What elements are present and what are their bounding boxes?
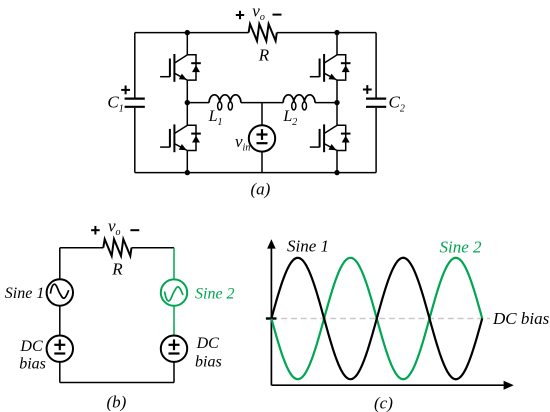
svg-text:C2: C2	[389, 93, 405, 115]
wire: (b) right lower	[173, 362, 175, 383]
label: minus of vo (b)	[130, 229, 139, 231]
DC bias dashed line (c)	[271, 318, 490, 320]
inductor L1	[209, 95, 241, 110]
source Sine 1	[47, 279, 73, 305]
svg-text:Sine 2: Sine 2	[440, 238, 483, 257]
wire: (b) left middle	[59, 306, 61, 336]
wire: (b) top rail right	[132, 247, 175, 249]
label: + of C1	[121, 86, 130, 95]
wire: vin top	[261, 103, 263, 126]
axis tick at DC bias level	[266, 317, 277, 319]
svg-text:DC: DC	[19, 338, 43, 355]
axis: x-axis arrowhead	[504, 381, 514, 390]
svg-text:(b): (b)	[107, 393, 127, 412]
svg-text:Sine 1: Sine 1	[5, 285, 45, 302]
wire: (a) left rail upper	[134, 33, 136, 98]
transistor Q1 (top-left IGBT with diode)	[160, 54, 201, 82]
svg-text:L1: L1	[208, 108, 223, 128]
wire: mid horizontal left	[187, 102, 209, 104]
wire: (a) left rail lower	[134, 108, 136, 173]
wire: (a) bottom rail	[135, 172, 376, 174]
wire: vin bottom	[261, 152, 263, 173]
resistor R (b)	[103, 239, 131, 256]
svg-text:vin: vin	[235, 132, 250, 154]
transistor Q2 (bottom-left IGBT with diode)	[160, 124, 201, 152]
svg-text:Sine 1: Sine 1	[287, 237, 329, 256]
axis: x-axis (c)	[271, 384, 504, 386]
transistor Q3 (top-right IGBT with diode)	[310, 54, 351, 82]
inductor L2	[283, 95, 315, 110]
curve: Sine 1 (black, c)	[271, 258, 482, 379]
wire: (a) right rail lower	[375, 108, 377, 173]
node dot bottom-left	[185, 170, 190, 175]
wire: (b) bottom rail	[60, 382, 174, 384]
node dot top-right	[334, 30, 339, 35]
wire: left leg bottom	[186, 151, 188, 173]
wire: (a) top rail right segment	[277, 32, 376, 34]
wire: right leg bottom	[336, 151, 338, 173]
axis: y-axis (c)	[270, 248, 272, 386]
node dot mid-left	[185, 100, 190, 105]
svg-text:(a): (a)	[251, 179, 271, 198]
wire: (b) left lower	[59, 362, 61, 383]
wire: (b) top rail left	[60, 247, 104, 249]
capacitor C1	[125, 99, 145, 107]
svg-text:DC: DC	[196, 335, 220, 352]
resistor R (a)	[249, 24, 277, 41]
wire: left leg middle	[186, 80, 188, 125]
label: + of vo (a)	[236, 11, 244, 19]
svg-text:bias: bias	[19, 355, 46, 372]
node dot bottom-right	[334, 170, 339, 175]
wire: (b) right upper (green)	[173, 248, 175, 280]
svg-text:R: R	[258, 45, 270, 64]
wire: right leg top	[336, 33, 338, 55]
wire: (b) left upper	[59, 248, 61, 280]
transistor Q4 (bottom-right IGBT with diode)	[310, 124, 351, 152]
node dot top-left	[185, 30, 190, 35]
wire: (b) right middle (green)	[173, 306, 175, 336]
label: + of vo (b)	[91, 226, 100, 235]
wire: mid horizontal right	[315, 102, 337, 104]
label: + of C2	[363, 85, 372, 94]
svg-text:(c): (c)	[374, 393, 393, 412]
svg-text:vo: vo	[108, 217, 121, 239]
label: minus of vo (a)	[273, 14, 282, 16]
axis: y-axis arrowhead	[267, 239, 276, 248]
curve: Sine 2 (green, c)	[271, 258, 482, 379]
source Sine 2 (green)	[161, 279, 187, 305]
svg-text:Sine 2: Sine 2	[195, 286, 235, 303]
svg-text:C1: C1	[107, 93, 123, 115]
wire: (a) top rail left segment	[135, 32, 249, 34]
node dot mid-right	[334, 100, 339, 105]
wire: left leg top	[186, 33, 188, 55]
svg-text:DC bias: DC bias	[492, 309, 550, 328]
capacitor C2	[366, 99, 386, 107]
source DC bias left	[47, 336, 73, 362]
wire: mid horizontal center	[241, 102, 283, 104]
svg-text:R: R	[111, 260, 123, 279]
source vin	[249, 125, 275, 151]
source DC bias right	[161, 336, 187, 362]
svg-text:vo: vo	[252, 1, 265, 23]
wire: right leg middle	[336, 80, 338, 125]
wire: (a) right rail upper	[375, 33, 377, 98]
svg-text:bias: bias	[195, 354, 222, 371]
svg-text:L2: L2	[282, 108, 297, 128]
